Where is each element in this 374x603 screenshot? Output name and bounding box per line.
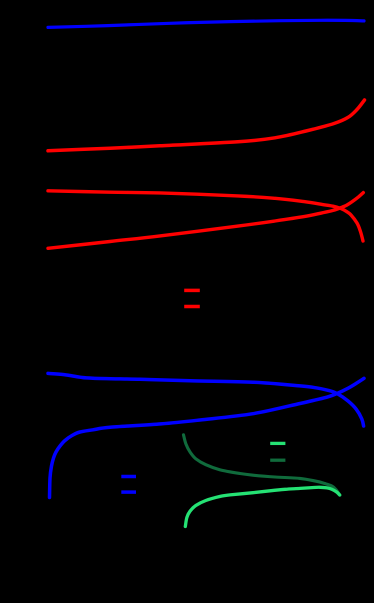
legend blue sample 1	[121, 475, 136, 479]
legend red sample 2	[184, 305, 200, 309]
curve red-3	[48, 193, 363, 249]
legend green sample 1 (bright)	[270, 442, 285, 445]
curve green-dark	[184, 435, 341, 495]
legend green sample 2 (dark)	[270, 459, 285, 462]
legend blue sample 2	[121, 490, 136, 494]
legend red sample 1	[184, 289, 200, 293]
curve red-2	[48, 191, 363, 241]
curve blue-bottom-2	[50, 378, 365, 497]
curve red-1	[48, 100, 365, 151]
curve blue-top	[48, 20, 364, 27]
curve green-bright	[185, 487, 339, 526]
curve blue-bottom-1	[48, 373, 364, 426]
